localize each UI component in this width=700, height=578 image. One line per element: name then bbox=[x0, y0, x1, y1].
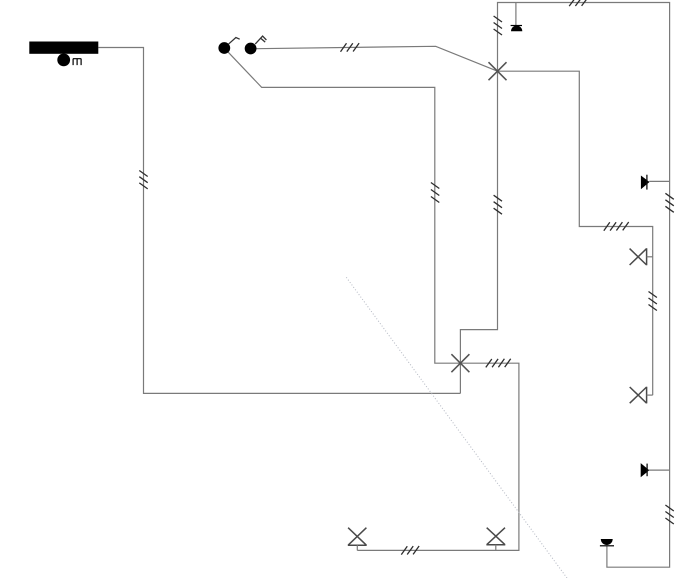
lamp X2 bbox=[451, 354, 469, 372]
conductor ticks H on y=226 run (4) bbox=[604, 222, 629, 231]
conductor ticks B on switch wire bbox=[341, 43, 360, 52]
conductor ticks I on x=652 riser bbox=[649, 292, 657, 311]
conductor ticks D above lamp X1 bbox=[494, 16, 502, 35]
ceiling lamp D2 bbox=[600, 539, 614, 546]
lamp B bbox=[630, 387, 653, 404]
bottom lamp L2 bbox=[486, 528, 505, 551]
wire: lamp X1 up, top run, right riser down to ceiling lamp D2 bbox=[498, 3, 670, 568]
meter circle m bbox=[57, 54, 81, 67]
bottom lamp L1 bbox=[348, 528, 367, 551]
wire: lamp X1 right branch to lamps A and B bbox=[498, 71, 653, 395]
wire: switch S1 to lamp X2 bbox=[228, 52, 460, 363]
conductor ticks J right of lamp X2 (4) bbox=[486, 359, 511, 368]
wire: lamp X1 down to lamp X2 bbox=[460, 71, 497, 393]
wire: switch S2 to lamp X1 bbox=[256, 46, 497, 71]
distribution board bbox=[29, 42, 98, 54]
wire: lamp X2 right branch to bottom lamps bbox=[357, 363, 519, 550]
switch S2 bbox=[245, 36, 267, 54]
conductor ticks K on bottom run bbox=[401, 546, 419, 555]
pendant lamp D1 bbox=[511, 26, 523, 32]
conductor ticks G on right riser upper bbox=[665, 193, 673, 212]
wall lamp W1 bbox=[641, 175, 670, 190]
wire: panel feed, left loop to lamp X2 bbox=[98, 48, 460, 394]
conductor ticks A on left riser bbox=[139, 171, 147, 189]
conductor ticks F on top run bbox=[569, 0, 587, 6]
lamp A bbox=[630, 248, 653, 265]
conductor ticks L on right riser lower bbox=[665, 505, 673, 524]
dotted reference line bbox=[346, 277, 567, 578]
switch S1 bbox=[218, 38, 239, 54]
conductor ticks C on x=434.6 riser bbox=[431, 183, 439, 203]
conductor ticks E below lamp X1 bbox=[494, 195, 502, 214]
wire: pendant lamp stub bbox=[515, 3, 517, 26]
lamp X1 bbox=[489, 62, 507, 80]
wall lamp W2 bbox=[641, 463, 670, 477]
